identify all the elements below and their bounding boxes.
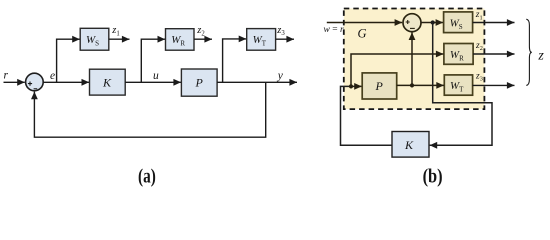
junction dot u [349, 84, 353, 88]
wire e (b) [421, 22, 443, 24]
svg-text:(b): (b) [423, 166, 443, 187]
wire z1 [109, 38, 130, 40]
summing junction (b) [403, 14, 421, 32]
wire z2 [194, 38, 212, 40]
block WT (a) [247, 29, 276, 51]
wire u [125, 81, 181, 83]
block WT (b) [444, 75, 472, 95]
svg-text:u: u [153, 70, 159, 82]
block K (b) [392, 132, 429, 158]
brace [526, 19, 532, 85]
wire z2 out [473, 53, 514, 55]
wire y to WT (b) [397, 84, 444, 86]
block WS (b) [444, 12, 473, 33]
plus sign (b) [406, 20, 410, 24]
summing junction (a) [26, 73, 44, 91]
wire u from K [341, 86, 393, 145]
block WS (a) [80, 28, 109, 50]
block K (a) [90, 69, 126, 95]
wire u to WR [141, 39, 165, 82]
wire e to WS [57, 39, 80, 82]
svg-text:P: P [195, 76, 204, 90]
svg-text:w = r: w = r [324, 25, 344, 35]
minus sign (b) [410, 27, 415, 29]
svg-text:e: e [50, 70, 55, 82]
wire u to WR (b) [351, 54, 444, 86]
svg-text:(a): (a) [138, 166, 156, 187]
svg-text:K: K [102, 75, 112, 89]
wire y [217, 81, 297, 83]
svg-text:z3: z3 [276, 25, 285, 37]
wire y to summing junction [411, 32, 413, 85]
block P (b) [362, 73, 397, 99]
svg-text:K: K [404, 138, 414, 152]
wire z1 out [473, 22, 515, 24]
wire z3 [276, 38, 294, 40]
wire feedback (a) [34, 82, 265, 137]
svg-text:z: z [537, 48, 544, 63]
junction dot y [410, 83, 414, 87]
generalized plant box G [344, 9, 485, 110]
wire z3 out [473, 84, 515, 86]
svg-text:z1: z1 [111, 25, 120, 37]
svg-text:P: P [375, 79, 384, 93]
plus sign [28, 82, 32, 86]
svg-text:G: G [358, 26, 367, 40]
minus sign [34, 88, 38, 90]
svg-text:y: y [277, 70, 284, 82]
wire e [43, 81, 89, 83]
svg-text:r: r [4, 69, 9, 81]
wire r input [4, 81, 25, 83]
wire y to WT [223, 39, 247, 82]
junction dot e [431, 20, 435, 24]
block WR (a) [166, 29, 195, 51]
block P (a) [181, 69, 217, 96]
wire w=r input [327, 22, 402, 24]
svg-text:z2: z2 [196, 25, 205, 37]
block WR (b) [444, 44, 473, 65]
wire e to K feedback [430, 23, 492, 146]
